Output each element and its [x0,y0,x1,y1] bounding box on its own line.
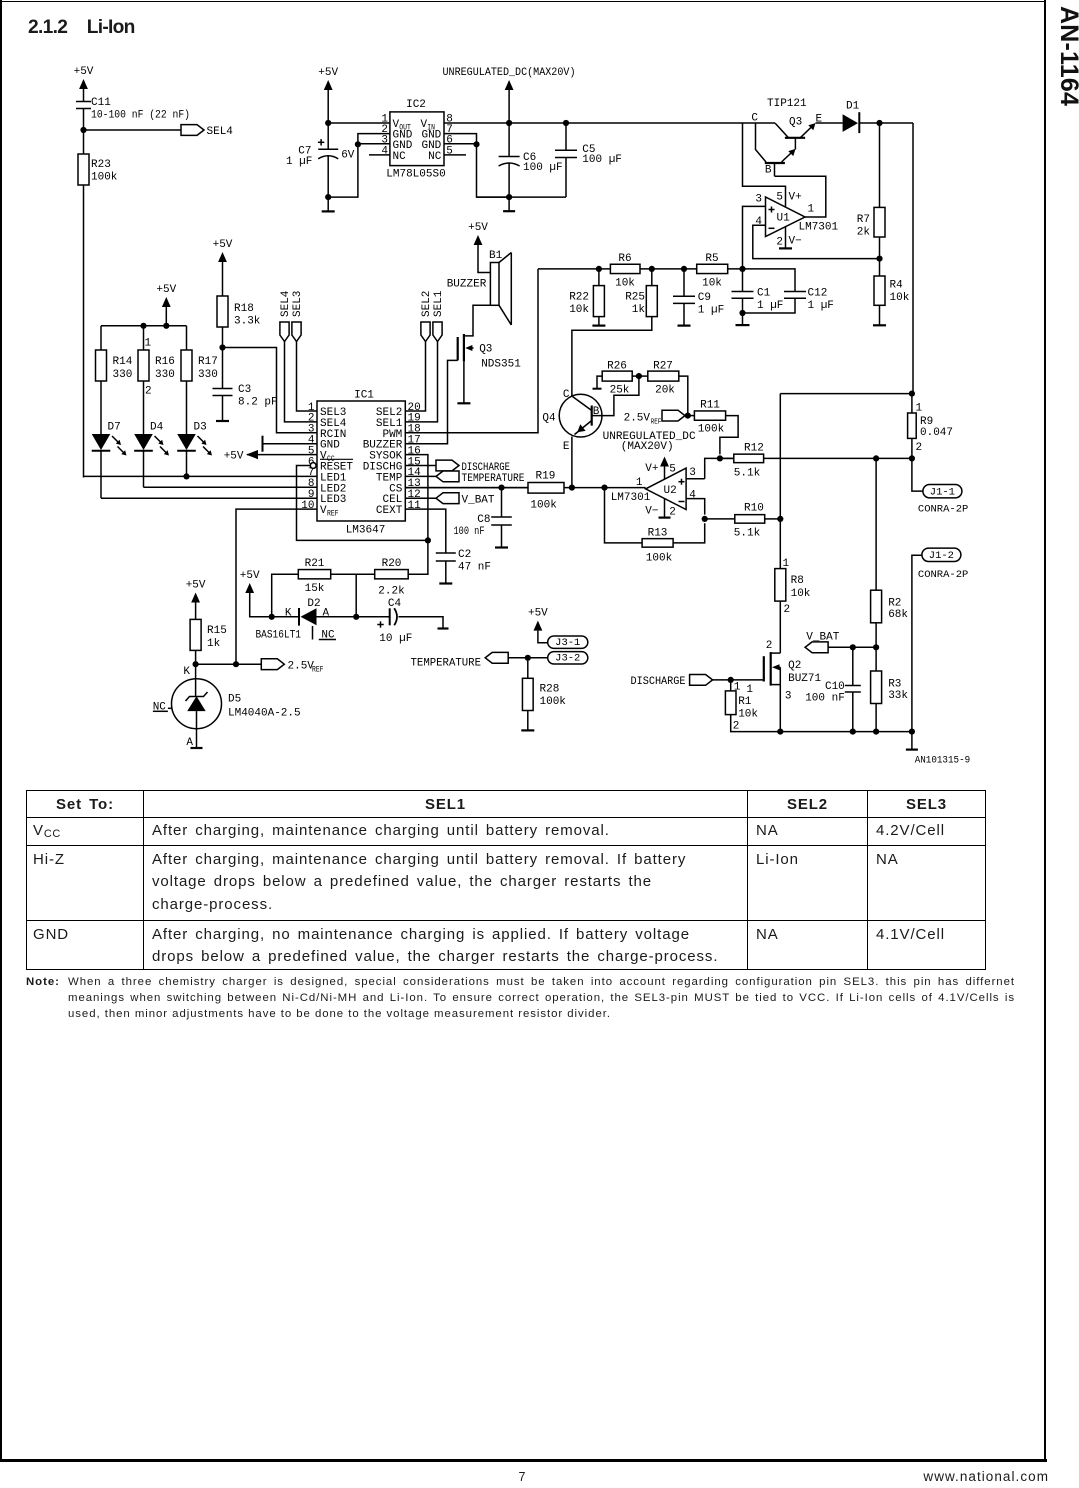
svg-text:8.2 pF: 8.2 pF [238,397,278,409]
svg-text:10-100 nF (22 nF): 10-100 nF (22 nF) [91,110,190,122]
svg-text:1: 1 [746,684,753,696]
svg-text:R16: R16 [155,356,175,368]
wire [879,259,881,276]
wire [508,90,510,123]
svg-text:C10: C10 [825,681,845,693]
wire [83,89,85,102]
wire [742,298,744,313]
resistor R16 [138,350,149,381]
wire [879,305,881,325]
node IC2 gnd right [473,141,479,147]
node R13/out [601,485,607,491]
wire [195,650,197,664]
svg-text:2.5V: 2.5V [288,660,315,672]
svg-text:LM7301: LM7301 [799,222,839,234]
svg-text:(MAX20V): (MAX20V) [621,441,674,453]
LED D7 [92,434,111,450]
node C9 [681,266,687,272]
wire V_BAT [828,646,876,648]
svg-text:IC1: IC1 [354,390,374,402]
wire [875,647,877,671]
svg-text:SEL2: SEL2 [421,291,433,317]
svg-text:47 nF: 47 nF [458,562,491,574]
svg-text:J1-1: J1-1 [930,487,955,499]
wire R8 to Q2 drain [779,601,781,653]
resistor R12 [734,454,764,463]
node R11 left [685,413,691,419]
svg-text:4: 4 [381,146,388,158]
capacitor C2 [436,552,456,554]
wire [83,185,85,478]
wire [195,664,197,696]
svg-text:SEL4: SEL4 [207,126,234,138]
node R1 top [728,677,734,683]
svg-text:R20: R20 [382,558,402,570]
LED D4 [134,434,153,450]
svg-text:+5V: +5V [240,570,260,582]
svg-text:BUZ71: BUZ71 [788,673,821,685]
svg-text:DISCHARGE: DISCHARGE [631,676,686,688]
wire [686,478,705,480]
node C5 top [563,120,569,126]
connector J1-2 [922,548,961,561]
wire [730,680,732,691]
wire [664,467,666,480]
svg-text:D5: D5 [228,694,241,706]
svg-text:J3-2: J3-2 [555,653,580,665]
wire [222,348,224,389]
wire [101,325,187,327]
wire R6-R5 [640,268,697,270]
resistor R14 [96,350,107,381]
svg-text:1: 1 [145,338,152,350]
resistor R27 [648,371,679,381]
svg-text:NC: NC [393,151,407,163]
capacitor C11 [76,101,91,103]
svg-text:C8: C8 [477,514,490,526]
svg-text:2: 2 [669,506,676,518]
wire [673,523,705,543]
wire SEL2 (pin 20) [405,342,425,412]
svg-text:CONRA-2P: CONRA-2P [918,504,968,516]
ground (C8) [495,546,508,548]
svg-text:R6: R6 [618,253,631,265]
wire [912,458,923,491]
svg-text:V: V [320,505,327,517]
wire [774,163,776,176]
wire [222,396,224,421]
wire RESET/SYSOK [297,466,428,541]
wire [356,616,390,618]
svg-text:5.1k: 5.1k [734,528,761,540]
circuit schematic [0,0,1079,785]
svg-text:K: K [285,608,292,620]
svg-text:1 µF: 1 µF [757,300,783,312]
svg-text:SEL4: SEL4 [280,290,292,317]
svg-text:+5V: +5V [468,222,488,234]
svg-text:+5V: +5V [74,66,94,78]
node U2 -in [702,516,708,522]
wire [399,617,444,628]
node C6 gnd [506,194,512,200]
wire top of R8 column [780,393,912,395]
wire [84,129,182,131]
svg-text:3: 3 [755,194,762,206]
wire [83,130,85,154]
wire [508,123,510,157]
svg-text:R2: R2 [888,598,901,610]
wire [779,667,781,731]
wire [405,475,436,477]
wire [143,381,145,434]
svg-text:R23: R23 [91,159,111,171]
wire [743,123,786,207]
svg-text:R21: R21 [305,558,325,570]
wire [508,164,510,198]
svg-text:4: 4 [755,216,762,228]
svg-text:NDS351: NDS351 [481,359,521,371]
svg-text:R13: R13 [648,528,668,540]
node C7 gnd [325,194,331,200]
svg-text:2.5V: 2.5V [624,412,651,424]
wire pin 7 [444,134,477,145]
wire [538,631,549,643]
svg-text:V+: V+ [645,463,658,475]
wire gnd row [477,196,567,198]
wire [879,237,881,259]
wire pin 4 NC [369,154,390,156]
svg-text:BUZZER: BUZZER [447,279,487,291]
svg-text:R8: R8 [791,575,804,587]
svg-text:+5V: +5V [213,239,233,251]
connector J3-2 [548,652,588,664]
node D1/R7 [876,120,882,126]
svg-text:100k: 100k [698,424,725,436]
wire R12 right [764,457,912,459]
footer url [830,1469,1049,1484]
wire Q3 source [463,361,465,402]
wire [405,487,528,489]
svg-text:0.047: 0.047 [920,427,953,439]
node C10 [850,644,856,650]
wire [765,518,781,520]
wire [664,499,666,518]
ground (Q3) [457,402,470,404]
svg-text:TEMPERATURE: TEMPERATURE [411,657,482,669]
transistor Q2 BUZ71 (NMOS) [746,640,821,732]
node SYSOK/RESET [425,537,431,543]
junction [850,729,856,735]
page frame bottom border [0,1459,1047,1462]
svg-text:100 nF: 100 nF [454,526,485,538]
svg-text:LM7301: LM7301 [611,492,651,504]
node R2 top [873,455,879,461]
node R28 [525,655,531,661]
svg-text:100 nF: 100 nF [805,693,845,705]
wire [911,732,913,750]
wire [478,245,490,273]
wire SYSOK (pin 16) [405,455,428,575]
wire R25 to Q4 collector [572,317,652,396]
svg-text:V_BAT: V_BAT [462,495,495,507]
configuration table [26,790,986,970]
wire [720,457,734,459]
resistor R17 [181,350,192,381]
svg-text:BAS16LT1: BAS16LT1 [256,630,302,642]
wire TEMPERATURE [508,657,548,659]
wire [598,269,600,286]
wire [879,123,881,207]
wire [742,269,744,291]
wire [685,415,694,417]
wire R5 right to C12 [728,269,795,292]
node R25 [649,266,655,272]
svg-text:Q4: Q4 [542,413,556,425]
svg-text:+5V: +5V [224,451,244,463]
wire [875,704,877,732]
svg-text:Q3: Q3 [479,344,492,356]
wire [859,122,913,124]
diode D1 [843,101,913,134]
wire [742,313,744,325]
net flag DISCHARGE (Q2 gate) [690,675,713,686]
svg-text:5: 5 [446,146,453,158]
svg-text:5.1k: 5.1k [734,468,761,480]
wire [875,623,877,648]
wire [527,711,529,730]
wire [143,326,145,350]
node SEL4 [80,127,86,133]
wire [250,593,299,617]
svg-text:D2: D2 [307,598,320,610]
wire [683,269,685,296]
svg-text:V+: V+ [789,192,802,204]
node D2 anode [353,614,359,620]
resistor R15 [190,619,201,650]
wire R27 right [679,376,688,416]
svg-text:2.2k: 2.2k [378,586,405,598]
IC IC2 LM78L05 [381,99,452,181]
svg-text:2: 2 [776,237,783,249]
wire [686,499,705,515]
wire to D2 anode [355,574,357,617]
wire [196,711,198,748]
page frame right border [1044,0,1046,1461]
junction [777,729,783,735]
svg-text:U2: U2 [664,485,677,497]
wire rail to R9 [912,123,914,394]
wire pin 2 [358,134,390,145]
wire [875,458,877,590]
wire bottom rail [731,715,912,732]
transistor Q4 (PNP) [542,389,602,453]
junction [140,323,146,329]
svg-text:10k: 10k [615,278,635,290]
svg-text:K: K [183,666,190,678]
wire GND (pin 4) [263,443,318,445]
node R8 top [777,516,783,522]
wire [327,156,329,197]
LED D3 [177,434,196,450]
wire pin 5 NC [444,154,466,156]
transistor Q3 NDS351 (NMOS) [458,334,522,371]
ground (C6) [503,210,515,212]
svg-text:A: A [186,737,193,749]
node R7/R4 [876,256,882,262]
wire Q4 base [592,376,639,416]
svg-text:100 µF: 100 µF [582,154,622,166]
wire buzzer to Q3 drain [464,305,491,336]
wire unreg rail [509,122,742,124]
wire [168,707,172,709]
node Q4 E [569,485,575,491]
svg-text:Q3: Q3 [789,117,802,129]
svg-text:R5: R5 [705,253,718,265]
svg-text:R11: R11 [700,400,720,412]
ground (C3) [216,420,229,422]
svg-text:R25: R25 [625,292,645,304]
svg-text:100k: 100k [530,500,557,512]
svg-text:R18: R18 [234,303,254,315]
wire J1-2 to rail [912,555,922,731]
wire [247,454,317,456]
svg-text:R19: R19 [536,471,556,483]
svg-text:R7: R7 [857,214,870,226]
ground (C7) [322,210,335,212]
capacitor C4 [356,598,443,645]
svg-text:J3-1: J3-1 [555,637,580,649]
wire [327,123,329,149]
wire BUZZER (pin 17) [405,360,457,443]
svg-text:R17: R17 [198,356,218,368]
svg-text:20k: 20k [655,385,675,397]
svg-text:R12: R12 [744,443,764,455]
wire [100,381,102,434]
wire CS (pin 13) [405,487,528,489]
svg-text:1: 1 [808,204,815,216]
svg-text:R10: R10 [744,503,764,515]
wire [598,317,600,326]
svg-text:10k: 10k [702,278,722,290]
svg-text:SEL3: SEL3 [292,291,304,317]
svg-text:+5V: +5V [528,608,548,620]
node C6 top [506,120,512,126]
wire [327,197,329,211]
wire Vref (pin 10) [236,509,317,664]
wire [743,206,766,269]
svg-text:E: E [563,441,570,453]
op-amp U2 LM7301 [603,431,705,518]
wire [100,326,102,350]
svg-text:330: 330 [155,369,175,381]
svg-text:UNREGULATED_DC(MAX20V): UNREGULATED_DC(MAX20V) [443,67,576,79]
svg-text:CEXT: CEXT [376,505,403,517]
svg-text:J1-2: J1-2 [929,550,954,562]
wire [222,327,224,348]
wire [143,451,145,488]
svg-text:NC: NC [428,151,442,163]
svg-text:1 µF: 1 µF [698,305,724,317]
page frame left border [0,0,2,1461]
wire gnd right down [477,144,510,197]
svg-text:10: 10 [301,500,314,512]
svg-text:2: 2 [145,386,152,398]
node R12 left [717,455,723,461]
svg-text:R22: R22 [569,292,589,304]
wire [222,262,224,296]
svg-text:TIP121: TIP121 [767,98,807,110]
connector J3-1 [548,636,588,648]
svg-text:R26: R26 [607,361,627,373]
wire [852,647,854,685]
resistor R11 [694,411,725,420]
node R6 left [596,266,602,272]
wire [571,395,573,397]
svg-text:A: A [323,608,330,620]
svg-text:R15: R15 [207,625,227,637]
resistor R18 [217,296,228,327]
buzzer B1 [447,250,512,325]
RESET circle [310,463,316,469]
wire [186,451,188,477]
wire [501,525,503,547]
resistor R23 [78,154,89,185]
svg-text:25k: 25k [610,385,630,397]
svg-text:V−: V− [789,236,802,248]
wire [186,381,188,434]
svg-text:C3: C3 [238,384,251,396]
wire [683,303,685,325]
wire [527,658,529,679]
svg-text:LM78L05S0: LM78L05S0 [386,169,445,181]
svg-text:1k: 1k [632,304,646,316]
node R26/R27 [636,373,642,379]
wire [186,326,188,350]
svg-text:3.3k: 3.3k [234,316,261,328]
resistor R10 [735,515,765,524]
wire [632,375,648,377]
svg-text:R28: R28 [540,684,560,696]
svg-text:C: C [563,389,570,401]
node R9 top [909,391,915,397]
node R9 bottom [909,455,915,461]
wire [705,518,735,520]
svg-text:TEMPERATURE: TEMPERATURE [462,473,525,485]
junction [233,661,239,667]
resistor R20 [375,570,409,579]
wire [756,123,767,162]
svg-text:1 µF: 1 µF [808,300,834,312]
wire R21 left [272,574,299,617]
svg-text:15k: 15k [305,583,325,595]
svg-text:2k: 2k [857,227,871,239]
wire U2 +in [705,458,734,478]
svg-text:4: 4 [689,489,696,501]
node IC2 gnd left [355,141,361,147]
transistor Q3 TIP121 (darlington) [743,98,843,177]
svg-text:C2: C2 [458,549,471,561]
IC U1 LM3647 (IC1) [301,390,421,537]
node R2/R3 [873,644,879,650]
page frame top border [0,1,1046,3]
junction [873,729,879,735]
wire [317,616,357,618]
svg-text:SEL1: SEL1 [433,290,445,317]
wire [565,158,567,198]
wire LED3 (pin 9) [101,497,317,499]
ground (C4) [438,627,449,629]
wire [597,376,602,388]
